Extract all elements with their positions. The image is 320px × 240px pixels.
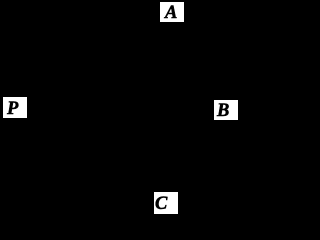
node label B — [214, 100, 238, 120]
node label A — [160, 2, 184, 22]
node label C — [154, 192, 178, 214]
node label P — [3, 97, 27, 118]
